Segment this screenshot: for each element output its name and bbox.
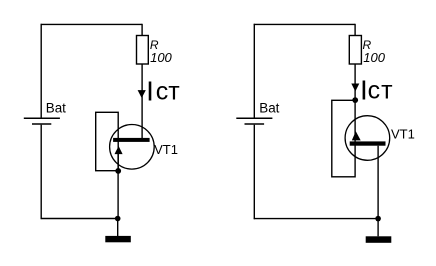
transistor VT1 channel bar (left) [113,138,150,142]
battery Bat (left circuit) [24,118,60,124]
transistor VT1 channel bar (right) [350,141,386,145]
svg-text:I: I [146,75,154,106]
gate loop wire rectangle (right circuit) [332,100,355,177]
wire: ground lead, right circuit [377,219,379,237]
ground (left circuit) [105,236,131,242]
wire: left vertical upper (battery +), left circuit [40,24,42,118]
node: gate-drain junction dot (right circuit) [352,97,358,103]
wire: bottom horizontal (battery - to source node), right circuit [254,218,378,220]
gate loop wire rectangle (left circuit) [96,112,119,170]
wire: bar to bottom rail, right circuit [377,146,379,219]
wire: bottom horizontal (battery - to source node), left circuit [41,218,118,220]
svg-text:ст: ст [368,76,394,104]
current direction arrow (left circuit) [138,90,146,98]
transistor VT1 circle (right) [345,116,390,161]
wire: ground lead, left circuit [117,219,119,237]
wire: drain lead from resistor to gate node, right circuit [354,64,356,100]
transistor VT1 source arrow (right) [352,131,361,140]
transistor VT1 circle (left) [110,125,155,170]
wire: left vertical upper (battery +), right circuit [253,24,255,118]
wire: source to bottom rail, left circuit [117,154,119,219]
wire: left vertical lower (battery -), left circuit [40,125,42,219]
svg-text:VT1: VT1 [154,142,178,157]
svg-text:Bat: Bat [259,101,279,116]
svg-text:VT1: VT1 [391,126,415,141]
node: bottom rail junction dot (left circuit) [115,216,121,222]
ground (right circuit) [366,236,392,243]
wire: resistor top lead, right circuit [354,24,356,36]
svg-text:100: 100 [363,50,385,65]
wire: drain lead from resistor to transistor, left circuit [141,64,143,139]
node: gate-source junction dot (left circuit) [115,168,121,174]
wire: left vertical lower (battery -), right circuit [253,125,255,220]
wire: top horizontal (battery + to resistor), left circuit [41,23,143,25]
battery Bat (right circuit) [236,118,272,124]
svg-text:100: 100 [150,50,172,65]
wire: top horizontal (battery + to resistor), right circuit [254,23,355,25]
current direction arrow (right circuit) [351,84,359,92]
wire: resistor top lead, left circuit [141,24,143,36]
node: bottom rail junction dot (right circuit) [375,216,381,222]
resistor R1 100 (right circuit) [349,36,361,65]
svg-text:ст: ст [156,77,181,105]
resistor R1 100 (left circuit) [137,36,149,65]
svg-text:Bat: Bat [46,101,66,116]
transistor VT1 source arrow (left) [115,146,123,154]
